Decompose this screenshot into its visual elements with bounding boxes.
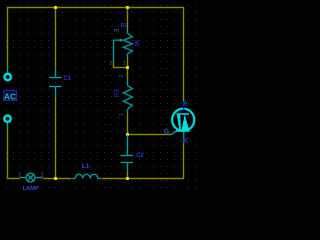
svg-text:G: G — [164, 129, 170, 136]
svg-text:1: 1 — [123, 61, 126, 67]
svg-text:R2: R2 — [121, 23, 128, 29]
svg-text:C1: C1 — [63, 76, 71, 82]
svg-text:C2: C2 — [136, 153, 144, 159]
svg-text:R3: R3 — [115, 89, 121, 97]
svg-text:1K: 1K — [135, 39, 141, 46]
svg-text:A: A — [183, 100, 188, 107]
svg-text:1: 1 — [119, 113, 125, 116]
svg-text:2: 2 — [109, 61, 112, 67]
svg-text:2: 2 — [119, 75, 125, 78]
svg-text:K: K — [183, 138, 188, 145]
svg-text:L1: L1 — [82, 163, 90, 170]
svg-text:AC: AC — [4, 91, 16, 101]
svg-text:3: 3 — [114, 28, 121, 32]
svg-text:LAMP: LAMP — [23, 186, 40, 192]
